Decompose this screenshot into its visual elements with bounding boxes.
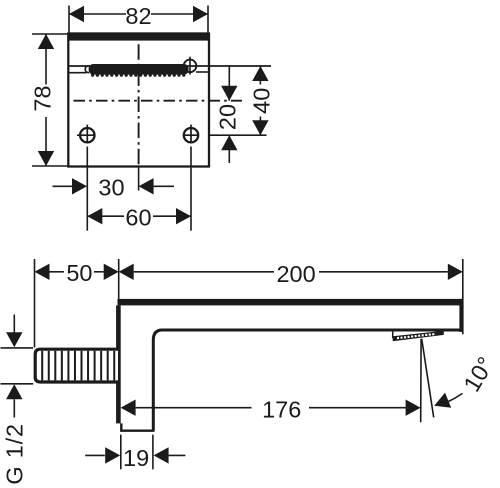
dim 82 arrows <box>69 6 84 22</box>
wall inner edge + spout underside <box>153 330 461 431</box>
dim 200 line <box>134 271 274 273</box>
spout tip edge <box>459 299 463 332</box>
aerator band (tilted) <box>393 331 444 342</box>
dim 200 arrows <box>119 264 134 280</box>
dim 40 line <box>259 66 261 85</box>
dim 30 line <box>53 185 73 187</box>
svg-text:82: 82 <box>125 3 151 29</box>
hole left cross <box>86 125 88 143</box>
part outline (top view body 82x78) <box>68 34 209 167</box>
dim 40 arrows <box>252 66 268 81</box>
wall bottom outline <box>120 423 122 430</box>
extension line hole level right <box>209 134 267 136</box>
slot left end cap <box>85 66 89 73</box>
svg-text:176: 176 <box>262 397 301 423</box>
aerator teeth <box>91 74 185 77</box>
dim 20 line tails <box>228 66 230 101</box>
dim 176 arrows <box>121 400 136 416</box>
wall left thick edge <box>116 305 121 423</box>
svg-text:20: 20 <box>215 104 241 130</box>
extension line center below part <box>138 167 140 191</box>
angle arrow tail <box>448 393 463 402</box>
dim G1/2 extension lines <box>1 347 34 349</box>
svg-text:60: 60 <box>125 204 151 230</box>
svg-text:10°: 10° <box>458 352 499 396</box>
hole left <box>80 128 94 142</box>
dim G1/2 tails <box>13 315 15 334</box>
dim 50 arrows <box>35 264 50 280</box>
dim 50 line <box>50 271 65 273</box>
svg-text:78: 78 <box>30 85 56 111</box>
dim 19 tails <box>85 454 105 456</box>
slot top line + extension to 40-dim <box>69 65 271 67</box>
thread hatch lines <box>42 351 114 381</box>
aerator bar (black) <box>89 64 189 75</box>
dim 176 line <box>136 407 252 409</box>
dim 60 line <box>87 215 124 217</box>
hole right <box>184 128 198 142</box>
aerator band left connector <box>392 331 394 338</box>
svg-text:40: 40 <box>248 88 274 114</box>
dim 82 extension lines <box>68 6 70 34</box>
dim 30 arrows <box>72 178 87 194</box>
svg-text:50: 50 <box>66 260 92 286</box>
slot circle cross <box>189 57 191 75</box>
dim 50/200 extension lines <box>34 259 36 348</box>
extension lines below holes <box>86 147 88 231</box>
horizontal centerline <box>74 100 243 102</box>
thread outline <box>35 349 118 382</box>
svg-text:30: 30 <box>98 174 124 200</box>
spout top plate (thick) <box>118 299 464 306</box>
dim 19 arrows <box>105 447 120 463</box>
dim 78 arrows <box>38 34 54 49</box>
svg-text:G 1/2: G 1/2 <box>1 423 27 484</box>
angle arrow <box>431 393 451 414</box>
dim G1/2 arrows <box>6 332 22 347</box>
svg-text:19: 19 <box>123 445 149 471</box>
slot circle <box>184 60 197 73</box>
angle reference line (vertical) <box>420 339 422 423</box>
dim 78 extension ticks <box>32 33 68 35</box>
hole right cross <box>190 125 192 143</box>
dim 19 extension lines <box>120 435 122 470</box>
slot bottom line right segment <box>196 71 208 73</box>
aerator band dots <box>397 333 435 339</box>
slot bottom line left segment <box>69 72 86 74</box>
front edge thick bar <box>68 33 209 40</box>
dim 82 line <box>69 13 126 15</box>
vertical centerline <box>138 44 140 166</box>
dim 60 arrows <box>87 208 102 224</box>
svg-text:200: 200 <box>276 261 315 287</box>
dim 20 arrows <box>221 86 237 101</box>
dim 78 line <box>45 34 47 85</box>
angle line 10 deg <box>422 339 434 418</box>
